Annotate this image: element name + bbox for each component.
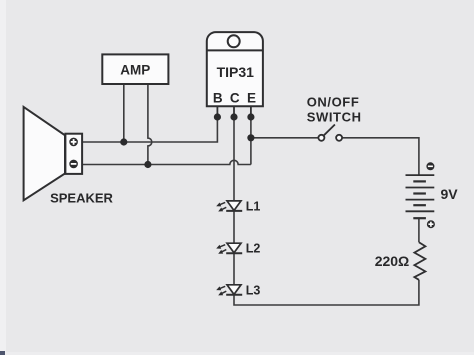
svg-text:TIP31: TIP31 [217,64,255,80]
svg-text:AMP: AMP [120,62,150,77]
svg-text:L1: L1 [246,199,261,213]
svg-text:ON/OFF: ON/OFF [307,94,360,109]
svg-text:L3: L3 [246,283,261,297]
svg-text:E: E [247,90,256,105]
svg-text:220Ω: 220Ω [375,253,410,269]
svg-text:C: C [230,90,240,105]
svg-text:9V: 9V [441,186,459,202]
svg-text:SPEAKER: SPEAKER [50,191,113,206]
svg-text:L2: L2 [246,242,261,256]
svg-text:SWITCH: SWITCH [307,109,362,124]
svg-text:B: B [213,90,223,105]
